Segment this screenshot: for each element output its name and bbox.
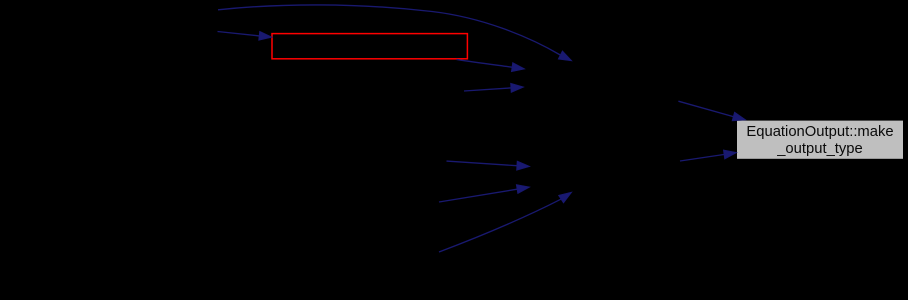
edge: lower middle node to EquationOutput::make_output_type (680, 150, 737, 161)
edge: caller 3 (curved from bottom) into lower middle node (439, 192, 572, 252)
arrowhead into upper middle node (511, 83, 525, 92)
arrowhead at bottom-left of grey node (723, 150, 737, 159)
arrowhead caller 1 (517, 161, 531, 170)
node: truncated caller node (red outline, label hidden on black) (272, 34, 467, 59)
arrowhead at top-left corner of grey node (732, 112, 746, 121)
edge: caller into red node (218, 31, 273, 40)
node EquationOutput::make_output_type (current function, grey fill) (737, 121, 903, 159)
arrowhead caller 3 (558, 192, 572, 203)
edge: caller into upper middle node (lower-left) (464, 83, 524, 92)
edge: upper middle node to EquationOutput::make_output_type (678, 101, 746, 121)
edge: red node to upper middle node (457, 59, 526, 71)
edge: caller 1 into lower middle node (447, 161, 531, 170)
arrowhead of long curved edge (558, 51, 572, 61)
svg-text:_output_type: _output_type (776, 141, 863, 157)
arrowhead red node to upper middle node (511, 63, 525, 72)
edge: caller 2 into lower middle node (439, 185, 530, 203)
svg-text:EquationOutput::make: EquationOutput::make (746, 124, 893, 140)
arrowhead caller 2 (516, 185, 530, 194)
edge: long curved caller edge over red node to upper middle node (218, 5, 572, 61)
arrowhead into red node (259, 31, 273, 40)
